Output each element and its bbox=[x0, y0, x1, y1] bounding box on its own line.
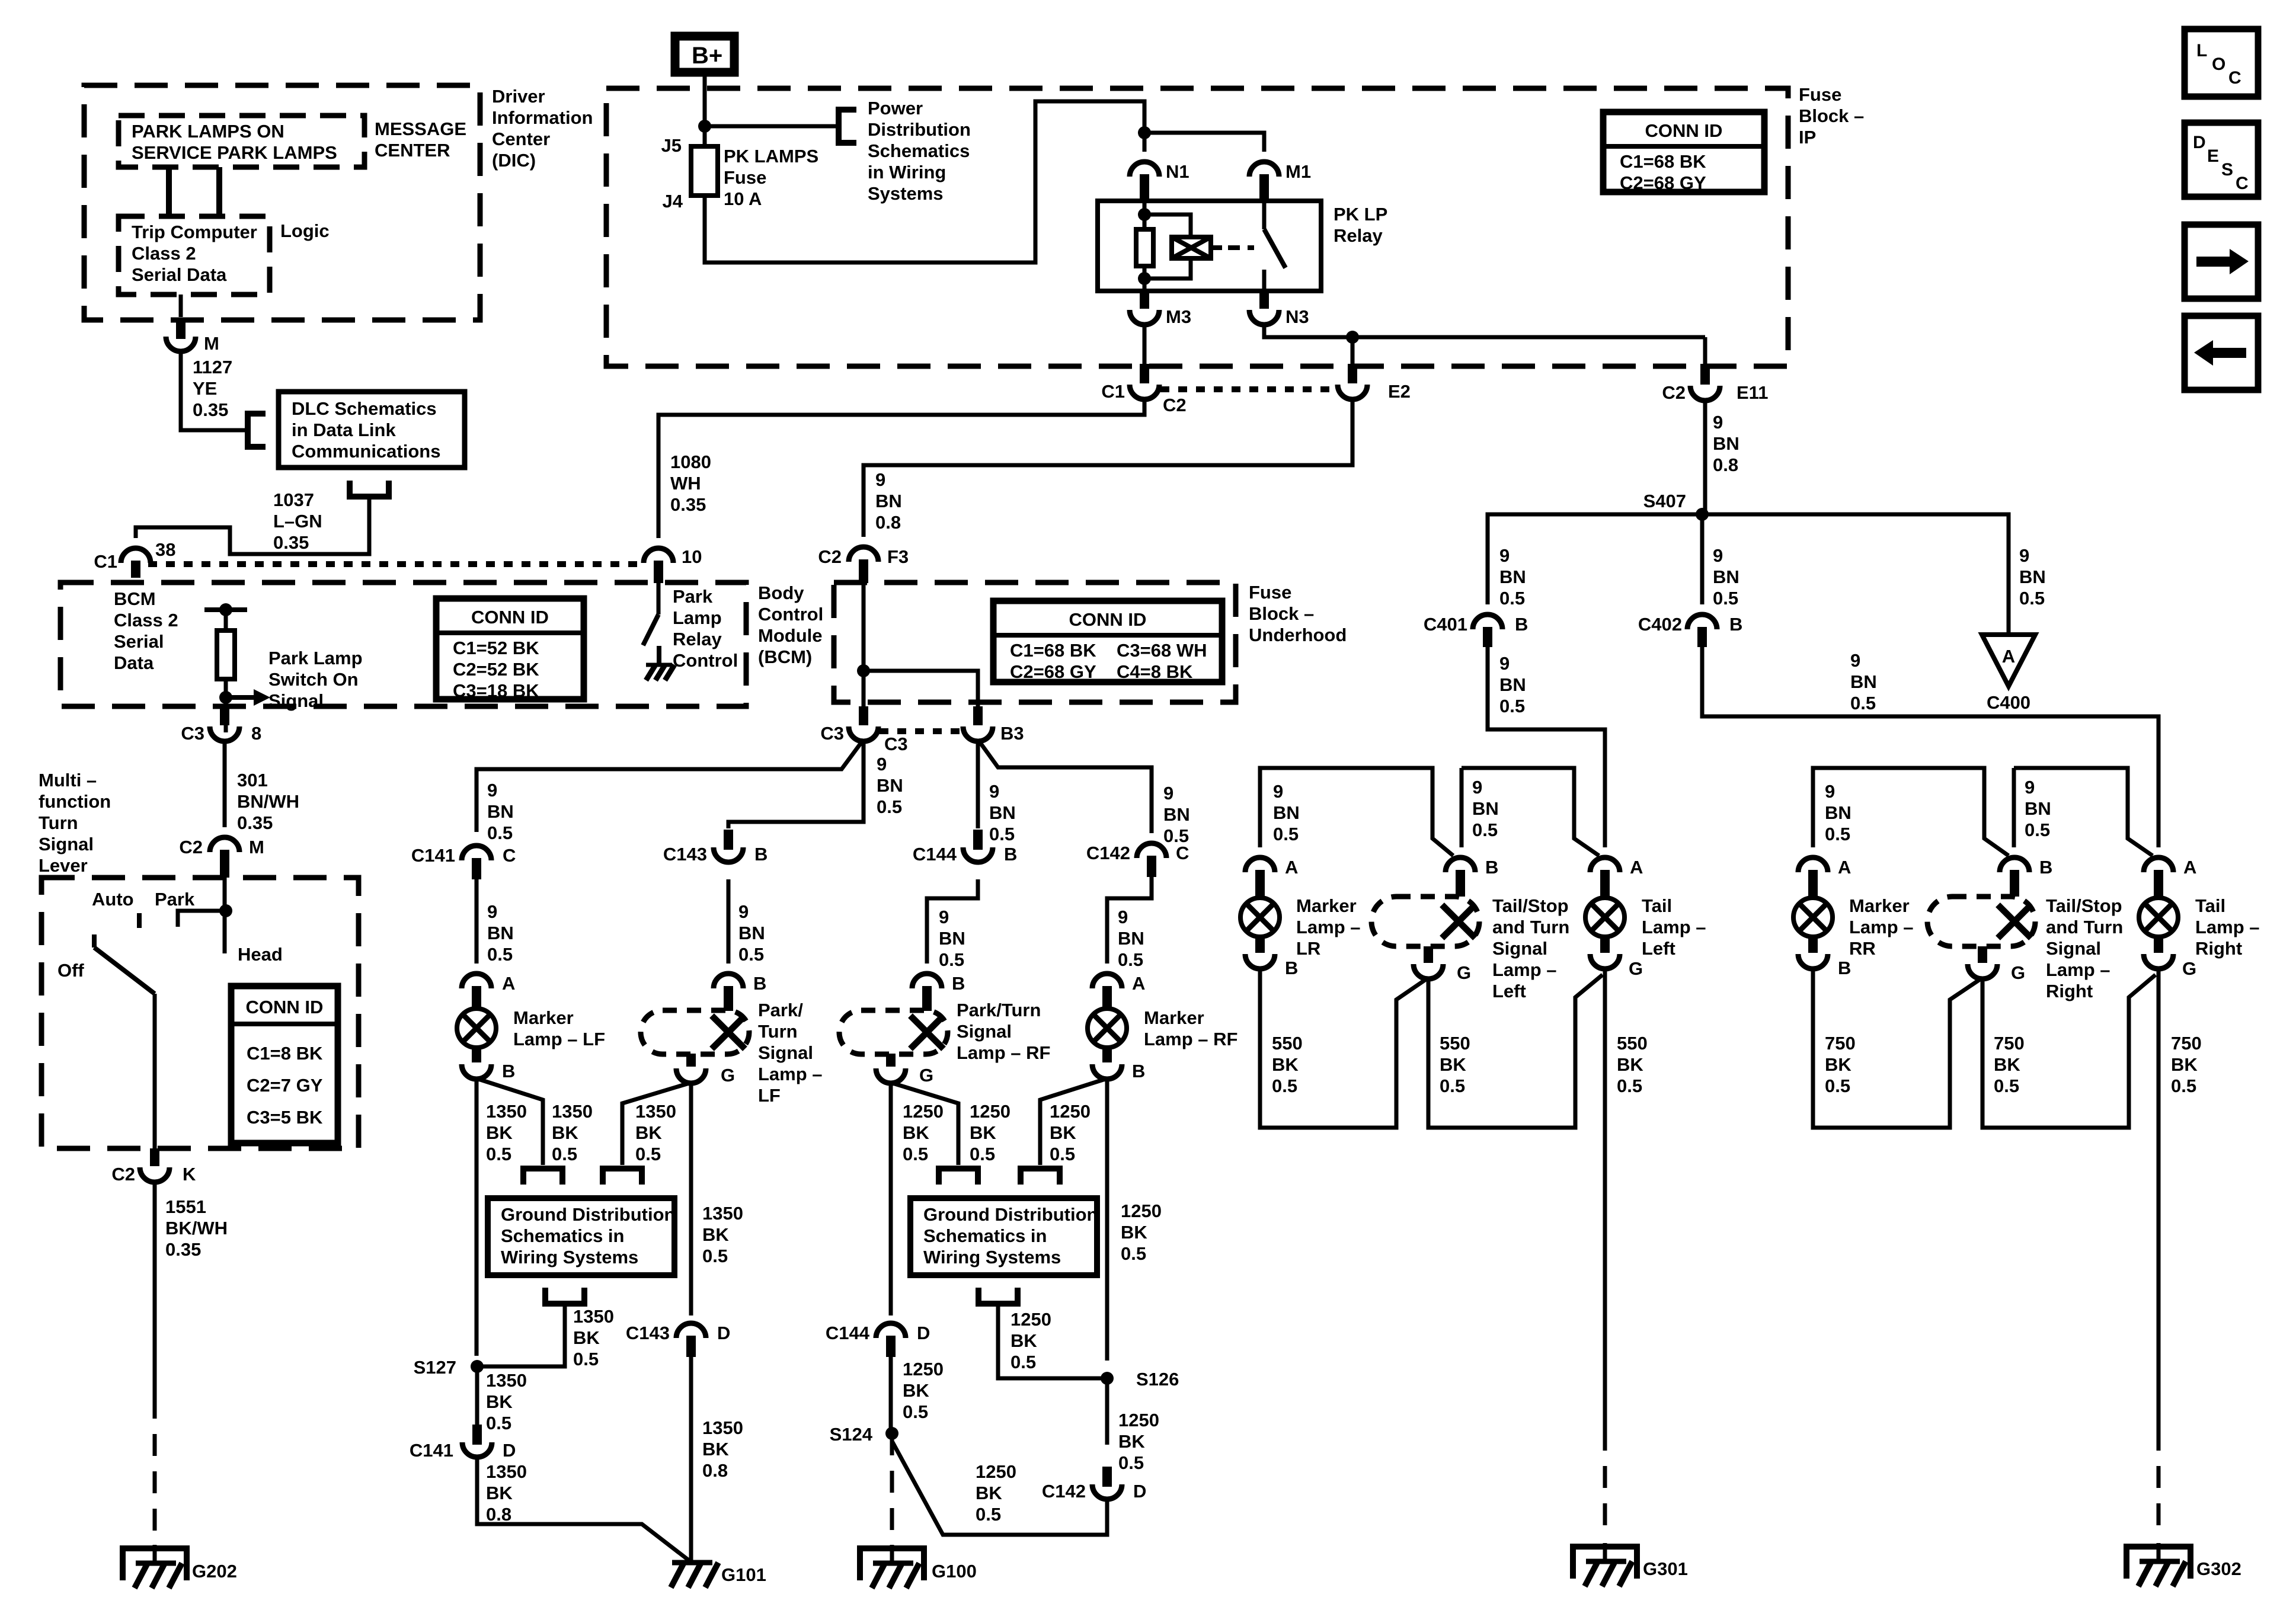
bracket into DLC box bbox=[248, 414, 266, 447]
svg-text:in Data Link: in Data Link bbox=[292, 420, 396, 440]
wire message-to-logic 1 bbox=[166, 167, 172, 216]
off-page connector C400 A bbox=[1982, 635, 2035, 713]
svg-text:O: O bbox=[2212, 55, 2225, 74]
svg-text:0.5: 0.5 bbox=[738, 944, 764, 965]
svg-text:LR: LR bbox=[1296, 938, 1320, 959]
park/turn signal lamp LF bbox=[641, 1010, 749, 1054]
svg-text:C3=68 WH: C3=68 WH bbox=[1117, 640, 1207, 661]
svg-text:C1=68 BK: C1=68 BK bbox=[1010, 640, 1096, 661]
connector M3 bbox=[1130, 291, 1191, 327]
wire C142 to A bbox=[1107, 877, 1152, 964]
svg-text:L: L bbox=[2196, 41, 2207, 60]
svg-text:0.35: 0.35 bbox=[165, 1239, 201, 1260]
connector A marker LF bbox=[462, 973, 515, 1009]
wire B marker RF diagonal bbox=[1040, 1078, 1107, 1165]
svg-text:Multi –: Multi – bbox=[39, 770, 97, 790]
svg-text:E11: E11 bbox=[1737, 382, 1768, 403]
connector B3 bbox=[963, 706, 1024, 744]
connector C401 B bbox=[1424, 614, 1528, 647]
label Fuse Block - Underhood bbox=[1249, 582, 1347, 645]
svg-text:S127: S127 bbox=[414, 1357, 456, 1378]
label C3 lower bbox=[884, 734, 908, 754]
svg-text:0.5: 0.5 bbox=[1121, 1243, 1146, 1264]
svg-text:Park/: Park/ bbox=[758, 1000, 803, 1020]
label J4 bbox=[663, 191, 683, 212]
svg-text:9: 9 bbox=[2025, 777, 2035, 798]
svg-text:9: 9 bbox=[1713, 412, 1723, 433]
label 9 BN 0.5 C402 lower bbox=[1850, 650, 1877, 713]
label 9 BN 0.5 tailstop left bbox=[1472, 777, 1499, 840]
ground G101 bbox=[671, 1544, 766, 1587]
label Head bbox=[238, 944, 283, 965]
label 9 BN 0.8 left bbox=[875, 469, 902, 533]
connector C142 C bbox=[1086, 843, 1189, 877]
label 9 BN 0.5 C402 upper bbox=[1713, 545, 1739, 609]
svg-text:C400: C400 bbox=[1987, 692, 2030, 713]
connector E2 bbox=[1338, 364, 1411, 402]
svg-text:RR: RR bbox=[1849, 938, 1876, 959]
label 9 BN 0.5 LF A bbox=[487, 901, 514, 965]
svg-text:C2=7 GY: C2=7 GY bbox=[247, 1075, 323, 1096]
svg-text:BN: BN bbox=[1163, 804, 1190, 825]
svg-text:C3: C3 bbox=[181, 723, 204, 744]
connector C2 M bbox=[179, 837, 264, 878]
connector C2 F3 bbox=[818, 546, 909, 583]
svg-text:BK: BK bbox=[486, 1122, 513, 1143]
wire C144 D to S124 bbox=[889, 1357, 893, 1433]
label 1080 WH 0.35 bbox=[670, 452, 711, 515]
connector B tailstop left bbox=[1446, 857, 1498, 897]
svg-text:Left: Left bbox=[1642, 938, 1675, 959]
label 1250 BK 0.5 no6 bbox=[1118, 1410, 1159, 1473]
svg-text:B: B bbox=[753, 973, 766, 994]
svg-text:G: G bbox=[919, 1065, 933, 1086]
svg-text:BN: BN bbox=[875, 491, 902, 511]
svg-text:Ground Distribution: Ground Distribution bbox=[501, 1204, 675, 1225]
svg-text:0.5: 0.5 bbox=[1118, 1452, 1144, 1473]
svg-text:C4=8 BK: C4=8 BK bbox=[1117, 661, 1193, 682]
wire C3 to front left bbox=[477, 740, 864, 832]
svg-text:G302: G302 bbox=[2196, 1558, 2241, 1579]
connector C141 D bbox=[410, 1425, 516, 1461]
svg-text:0.8: 0.8 bbox=[875, 512, 901, 533]
wire C141 to A bbox=[475, 879, 479, 964]
bracket power distribution bbox=[839, 110, 856, 143]
connector 10 park lamp relay control bbox=[644, 546, 702, 583]
splice S127 bbox=[414, 1357, 484, 1378]
tail/stop left loop wire bbox=[1462, 768, 1599, 856]
svg-text:1250: 1250 bbox=[1121, 1201, 1162, 1221]
svg-text:G: G bbox=[2182, 958, 2196, 979]
svg-text:Block –: Block – bbox=[1799, 105, 1864, 126]
svg-text:9: 9 bbox=[2019, 545, 2029, 566]
svg-text:BCM: BCM bbox=[114, 588, 156, 609]
svg-text:0.5: 0.5 bbox=[1825, 824, 1850, 844]
svg-text:L–GN: L–GN bbox=[273, 511, 322, 532]
svg-text:0.5: 0.5 bbox=[552, 1144, 577, 1164]
svg-text:Block –: Block – bbox=[1249, 603, 1314, 624]
back arrow box bbox=[2185, 316, 2258, 390]
svg-text:9: 9 bbox=[1713, 545, 1723, 566]
wire to resistor bbox=[224, 610, 228, 630]
wire 9 BN 0.8 run bbox=[864, 398, 1352, 537]
wire to G302 dashed bbox=[2157, 1429, 2161, 1539]
wire B3 to C144 bbox=[976, 740, 980, 828]
svg-text:BK: BK bbox=[486, 1391, 513, 1412]
svg-text:B: B bbox=[1132, 1061, 1145, 1081]
svg-text:(DIC): (DIC) bbox=[492, 150, 536, 171]
svg-text:BN: BN bbox=[1499, 674, 1526, 695]
connector C144 D bbox=[826, 1323, 930, 1357]
svg-text:0.5: 0.5 bbox=[702, 1246, 728, 1266]
connector C2 K bbox=[111, 1148, 196, 1185]
wire B marker LF diagonal bbox=[477, 1078, 543, 1165]
svg-text:CENTER: CENTER bbox=[375, 140, 450, 161]
svg-text:Serial: Serial bbox=[114, 631, 164, 652]
svg-text:Auto: Auto bbox=[92, 889, 134, 910]
svg-text:C1: C1 bbox=[94, 551, 117, 572]
svg-text:G100: G100 bbox=[932, 1561, 977, 1582]
fuse block underhood dashed box bbox=[834, 582, 1236, 702]
svg-text:G: G bbox=[721, 1065, 735, 1086]
label PK LAMPS Fuse 10 A bbox=[724, 146, 818, 209]
svg-text:C1=52 BK: C1=52 BK bbox=[453, 638, 539, 658]
relay switch bbox=[1264, 201, 1285, 291]
svg-text:Systems: Systems bbox=[868, 183, 944, 204]
svg-text:1350: 1350 bbox=[486, 1101, 527, 1122]
svg-text:M: M bbox=[249, 837, 264, 857]
svg-text:BN: BN bbox=[738, 923, 765, 943]
svg-text:BK: BK bbox=[1011, 1330, 1037, 1351]
svg-text:BN: BN bbox=[1825, 802, 1851, 823]
svg-text:B: B bbox=[1838, 958, 1851, 978]
svg-text:MESSAGE: MESSAGE bbox=[375, 119, 466, 139]
svg-text:750: 750 bbox=[1994, 1033, 2025, 1054]
svg-text:0.5: 0.5 bbox=[1713, 588, 1738, 609]
dotted line C3 to B3 bbox=[880, 728, 962, 734]
label 9 BN 0.5 LF B bbox=[738, 901, 765, 965]
connector M bbox=[166, 319, 219, 354]
svg-text:Fuse: Fuse bbox=[1799, 84, 1841, 105]
label 9 BN 0.5 marker RR bbox=[1825, 781, 1851, 844]
svg-text:C142: C142 bbox=[1086, 843, 1130, 863]
bracket into ground box2 left bbox=[939, 1169, 978, 1185]
svg-text:BN: BN bbox=[1118, 928, 1144, 949]
svg-text:C144: C144 bbox=[913, 844, 957, 865]
svg-text:C2: C2 bbox=[1662, 382, 1686, 403]
label 9 BN 0.5 C144 feed bbox=[989, 781, 1016, 844]
label 750 BK 0.5 no2 bbox=[1994, 1033, 2025, 1096]
svg-text:B3: B3 bbox=[1000, 723, 1024, 744]
svg-text:Class 2: Class 2 bbox=[114, 610, 178, 630]
svg-text:0.5: 0.5 bbox=[877, 796, 902, 817]
svg-text:0.5: 0.5 bbox=[1273, 824, 1299, 844]
svg-text:S407: S407 bbox=[1643, 491, 1686, 511]
connector C144 B bbox=[913, 830, 1018, 865]
svg-text:1350: 1350 bbox=[702, 1203, 743, 1224]
svg-text:BK: BK bbox=[1617, 1054, 1643, 1075]
svg-text:and Turn: and Turn bbox=[2046, 917, 2123, 937]
arrow park lamp switch on signal bbox=[232, 689, 270, 706]
connector G tailstop right bbox=[1968, 946, 2025, 983]
svg-text:10: 10 bbox=[682, 546, 702, 567]
svg-text:C143: C143 bbox=[663, 844, 707, 865]
svg-text:G202: G202 bbox=[192, 1561, 237, 1582]
label 1250 BK 0.5 no2 bbox=[970, 1101, 1011, 1164]
svg-text:9: 9 bbox=[487, 780, 497, 801]
svg-text:BK: BK bbox=[573, 1327, 600, 1348]
svg-text:and Turn: and Turn bbox=[1492, 917, 1569, 937]
svg-text:8: 8 bbox=[251, 723, 261, 744]
svg-text:750: 750 bbox=[2171, 1033, 2202, 1054]
wire S407 to C401 bbox=[1488, 514, 1702, 604]
svg-text:38: 38 bbox=[155, 539, 175, 560]
svg-text:0.5: 0.5 bbox=[1050, 1144, 1075, 1164]
connector C402 B bbox=[1638, 614, 1743, 647]
ground G202 bbox=[123, 1545, 237, 1588]
svg-text:C2: C2 bbox=[1163, 395, 1187, 415]
wire to M1 bbox=[1144, 133, 1264, 152]
wire 301 BN/WH bbox=[223, 740, 227, 827]
ground G302 bbox=[2126, 1543, 2241, 1586]
svg-text:Lamp – RF: Lamp – RF bbox=[957, 1042, 1050, 1063]
tail/stop and turn signal lamp left bbox=[1371, 897, 1479, 946]
svg-text:0.5: 0.5 bbox=[486, 1144, 511, 1164]
svg-text:0.5: 0.5 bbox=[2025, 820, 2050, 840]
svg-text:1250: 1250 bbox=[1050, 1101, 1091, 1122]
connector B marker LR bbox=[1245, 937, 1298, 978]
svg-text:Right: Right bbox=[2046, 981, 2093, 1001]
svg-text:Class 2: Class 2 bbox=[132, 243, 196, 264]
resistor park lamp switch bbox=[217, 630, 235, 679]
label Park bbox=[155, 889, 195, 910]
svg-text:9: 9 bbox=[1273, 781, 1283, 802]
svg-text:BK: BK bbox=[635, 1122, 662, 1143]
wire S407 to C400 bbox=[1702, 514, 2009, 633]
label 1350 BK 0.8 no2 bbox=[702, 1417, 743, 1481]
svg-text:BK/WH: BK/WH bbox=[165, 1218, 228, 1238]
svg-text:Lamp –: Lamp – bbox=[1492, 959, 1557, 980]
wire tail right G down bbox=[2157, 967, 2161, 1429]
wire to power distribution bbox=[705, 124, 836, 129]
svg-text:1127: 1127 bbox=[193, 357, 232, 377]
label Fuse Block - IP bbox=[1799, 84, 1864, 148]
label Park Lamp Relay Control bbox=[673, 586, 738, 671]
svg-text:0.35: 0.35 bbox=[670, 494, 706, 515]
svg-text:A: A bbox=[2183, 857, 2196, 878]
connector A marker LR bbox=[1245, 857, 1298, 897]
next arrow box bbox=[2185, 225, 2258, 299]
svg-text:Module: Module bbox=[758, 625, 823, 646]
svg-text:function: function bbox=[39, 791, 111, 812]
svg-text:Marker: Marker bbox=[1296, 895, 1357, 916]
text DLC Schematics in Data Link Communications bbox=[292, 398, 440, 462]
svg-text:0.5: 0.5 bbox=[939, 949, 964, 970]
svg-text:C2=52 BK: C2=52 BK bbox=[453, 659, 539, 680]
marker lamp RR bbox=[1793, 898, 1833, 937]
svg-text:0.5: 0.5 bbox=[1825, 1076, 1850, 1096]
svg-text:0.5: 0.5 bbox=[903, 1401, 928, 1422]
label 9 BN 0.5 C142 feed bbox=[1163, 783, 1190, 846]
svg-text:Distribution: Distribution bbox=[868, 119, 971, 140]
svg-text:1250: 1250 bbox=[976, 1461, 1016, 1482]
relay coil branch wire bbox=[1138, 201, 1151, 229]
label 550 BK 0.5 no1 bbox=[1272, 1033, 1303, 1096]
svg-text:Schematics in: Schematics in bbox=[501, 1225, 624, 1246]
label 301 BN/WH 0.35 bbox=[237, 770, 299, 833]
svg-text:Signal: Signal bbox=[39, 834, 94, 854]
wire ground box2 to S126 bbox=[998, 1304, 1107, 1378]
svg-text:BK: BK bbox=[1272, 1054, 1299, 1075]
svg-text:0.35: 0.35 bbox=[237, 812, 273, 833]
svg-text:BK: BK bbox=[1118, 1431, 1145, 1452]
svg-text:BK: BK bbox=[552, 1122, 578, 1143]
connector A tail right bbox=[2144, 857, 2196, 897]
svg-text:Park: Park bbox=[673, 586, 713, 607]
svg-text:Signal: Signal bbox=[2046, 938, 2101, 959]
label Park/Turn Signal Lamp - RF bbox=[957, 1000, 1050, 1063]
svg-text:550: 550 bbox=[1617, 1033, 1648, 1054]
label Tail/Stop and Turn Signal Lamp - Right bbox=[2046, 895, 2123, 1001]
svg-text:Lamp –: Lamp – bbox=[1849, 917, 1914, 937]
svg-text:BK: BK bbox=[976, 1483, 1002, 1503]
label Multi-function Turn Signal Lever bbox=[39, 770, 111, 876]
svg-text:0.5: 0.5 bbox=[903, 1144, 928, 1164]
marker RR loop wire bbox=[1813, 768, 2009, 856]
svg-text:Relay: Relay bbox=[673, 629, 722, 649]
svg-text:C3=5 BK: C3=5 BK bbox=[247, 1107, 323, 1128]
svg-text:C2: C2 bbox=[818, 546, 842, 567]
svg-text:Signal: Signal bbox=[268, 690, 324, 711]
svg-text:A: A bbox=[1285, 857, 1298, 878]
label 1250 BK 0.5 no1 bbox=[903, 1101, 944, 1164]
splice S124 bbox=[830, 1424, 898, 1445]
svg-text:B: B bbox=[1515, 614, 1528, 635]
svg-text:750: 750 bbox=[1825, 1033, 1856, 1054]
svg-text:9: 9 bbox=[1850, 650, 1860, 671]
wire M to junction bbox=[219, 878, 232, 953]
bracket below ground box1 bbox=[545, 1288, 584, 1304]
relay resistor bbox=[1136, 229, 1153, 266]
svg-text:C2=68 GY: C2=68 GY bbox=[1620, 172, 1706, 193]
svg-text:9: 9 bbox=[1163, 783, 1173, 804]
wire ground box1 to S127 bbox=[477, 1304, 565, 1366]
connector B tailstop right bbox=[2000, 857, 2052, 897]
label 38 bbox=[155, 539, 175, 560]
splice S126 bbox=[1101, 1369, 1179, 1390]
connector N3 bbox=[1249, 291, 1309, 327]
svg-text:BK: BK bbox=[970, 1122, 996, 1143]
svg-text:LF: LF bbox=[758, 1085, 781, 1106]
connector G parkturn RF bbox=[876, 1054, 933, 1086]
svg-text:Park: Park bbox=[155, 889, 195, 910]
svg-text:C1: C1 bbox=[1101, 381, 1125, 402]
svg-text:1250: 1250 bbox=[903, 1101, 944, 1122]
svg-text:BN: BN bbox=[1499, 566, 1526, 587]
ground U tailstop to tail left bbox=[1428, 975, 1603, 1128]
svg-text:J5: J5 bbox=[661, 135, 682, 156]
svg-text:BK: BK bbox=[1050, 1122, 1076, 1143]
wire S407 to C402 bbox=[1700, 514, 1705, 604]
svg-text:S: S bbox=[2221, 160, 2233, 180]
wire 1551 BK/WH bbox=[153, 1180, 157, 1397]
DLC schematics box bbox=[279, 392, 465, 468]
text ground distribution 1 bbox=[501, 1204, 675, 1267]
svg-text:C3: C3 bbox=[884, 734, 908, 754]
svg-text:BK: BK bbox=[1121, 1222, 1147, 1243]
svg-text:PK LAMPS: PK LAMPS bbox=[724, 146, 818, 167]
DIC module dashed box bbox=[84, 85, 480, 320]
svg-text:C3=18 BK: C3=18 BK bbox=[453, 680, 539, 701]
svg-text:Marker: Marker bbox=[513, 1007, 574, 1028]
label 1127 YE 0.35 bbox=[193, 357, 232, 420]
svg-text:0.5: 0.5 bbox=[1499, 696, 1525, 716]
svg-text:1350: 1350 bbox=[486, 1461, 527, 1482]
svg-text:BN: BN bbox=[1713, 433, 1739, 454]
connector C143 B bbox=[663, 830, 768, 865]
svg-text:BN: BN bbox=[1713, 566, 1739, 587]
bracket below DLC box bbox=[350, 481, 389, 497]
label Park/Turn Signal Lamp - LF bbox=[758, 1000, 823, 1106]
svg-text:Turn: Turn bbox=[39, 812, 78, 833]
connector G tail left bbox=[1590, 937, 1643, 979]
svg-text:550: 550 bbox=[1272, 1033, 1303, 1054]
label 9 BN 0.5 C141 upper bbox=[487, 780, 514, 843]
marker lamp RF bbox=[1088, 1009, 1127, 1048]
connector G tail right bbox=[2144, 937, 2196, 979]
svg-text:0.5: 0.5 bbox=[487, 822, 513, 843]
svg-text:S124: S124 bbox=[830, 1424, 873, 1445]
switch blade off bbox=[94, 934, 155, 994]
label 1551 BK/WH 0.35 bbox=[165, 1196, 228, 1260]
connector B marker RF bbox=[1092, 1047, 1145, 1081]
ground U tailstop to tail right bbox=[1982, 975, 2156, 1128]
wire C142 D to S124 bbox=[892, 1441, 1107, 1535]
connector C2 E11 bbox=[1662, 364, 1768, 403]
svg-text:B: B bbox=[2039, 857, 2052, 878]
splice S407 bbox=[1643, 491, 1709, 521]
svg-text:Lamp –: Lamp – bbox=[1642, 917, 1706, 937]
svg-text:BN: BN bbox=[1273, 802, 1300, 823]
label MESSAGE CENTER bbox=[375, 119, 466, 161]
svg-text:A: A bbox=[1132, 973, 1145, 994]
BCM dashed box bbox=[60, 582, 746, 706]
wire S124 to G100 dashed bbox=[890, 1433, 894, 1541]
svg-text:Left: Left bbox=[1492, 981, 1526, 1001]
label 9 BN 0.5 RF B bbox=[939, 907, 965, 970]
svg-text:E: E bbox=[2207, 146, 2219, 166]
label Logic bbox=[280, 220, 330, 241]
svg-text:9: 9 bbox=[1499, 653, 1510, 674]
connector B marker LF bbox=[462, 1047, 515, 1081]
wire G parkturn LF diagonal bbox=[622, 1083, 691, 1165]
svg-text:Marker: Marker bbox=[1849, 895, 1910, 916]
label Tail/Stop and Turn Signal Lamp - Left bbox=[1492, 895, 1569, 1001]
svg-text:Data: Data bbox=[114, 652, 154, 673]
svg-text:1350: 1350 bbox=[573, 1306, 614, 1327]
wire message-to-logic 2 bbox=[216, 167, 222, 216]
svg-text:9: 9 bbox=[738, 901, 749, 922]
connector M1 bbox=[1249, 161, 1311, 201]
svg-text:Ground Distribution: Ground Distribution bbox=[923, 1204, 1098, 1225]
wire G parkturn LF down bbox=[689, 1081, 693, 1315]
svg-text:Tail/Stop: Tail/Stop bbox=[1492, 895, 1569, 916]
svg-text:1350: 1350 bbox=[486, 1370, 527, 1391]
ground G100 bbox=[860, 1545, 977, 1588]
svg-text:0.5: 0.5 bbox=[1499, 588, 1525, 609]
svg-text:D: D bbox=[717, 1323, 730, 1343]
svg-text:Lamp – LF: Lamp – LF bbox=[513, 1029, 605, 1049]
